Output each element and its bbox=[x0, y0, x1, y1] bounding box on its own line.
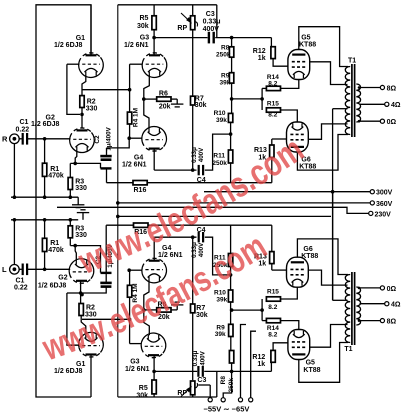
terminal 230V bbox=[369, 211, 373, 215]
svg-text:G2: G2 bbox=[58, 275, 67, 282]
svg-text:470k: 470k bbox=[48, 247, 64, 254]
wire R13' bottom to G6' grid bbox=[271, 264, 273, 271]
wire C4' to grid node bbox=[205, 237, 231, 275]
ground rail (bottom channel) bbox=[11, 219, 78, 221]
wire R11 bottom lead bbox=[230, 163, 232, 183]
wire R2 bottom to node bbox=[81, 108, 83, 115]
wire R6' right lead bbox=[171, 309, 177, 311]
wire R16' feed line bbox=[106, 224, 272, 226]
wire C4 to grid node bbox=[205, 134, 231, 170]
svg-text:RP: RP bbox=[177, 25, 187, 32]
transformer T1' core bbox=[352, 272, 355, 345]
watermark line 2: www.elecfans.com bbox=[37, 225, 273, 368]
svg-text:0.33μ: 0.33μ bbox=[192, 350, 199, 366]
node secondary' 8ohm tap bbox=[358, 319, 361, 322]
capacitor C1' 0.22u bbox=[23, 264, 27, 276]
feedback loop wire left (bottom) bbox=[36, 220, 91, 397]
wire jack sleeve down bbox=[13, 144, 15, 198]
wire R5' bottom lead bbox=[153, 394, 155, 397]
wire G5 plate loop to transformer bbox=[299, 27, 348, 67]
terminal bias 2 bbox=[221, 398, 225, 402]
potentiometer RP' body bbox=[191, 381, 195, 395]
wire R5 top lead bbox=[153, 5, 155, 16]
resistor R8' 250k bbox=[229, 351, 233, 364]
node rail/R3 bbox=[69, 195, 73, 199]
transformer T1' primary winding bbox=[345, 275, 350, 343]
wire C3' to R12' bbox=[204, 370, 271, 372]
svg-text:R12: R12 bbox=[252, 354, 265, 361]
svg-text:230V: 230V bbox=[375, 211, 392, 218]
potentiometer RP wiper hook bbox=[195, 22, 198, 27]
wire R8' bottom lead bbox=[231, 363, 233, 371]
svg-text:4Ω: 4Ω bbox=[391, 102, 401, 109]
svg-text:R: R bbox=[2, 135, 8, 144]
transformer T1 core bbox=[352, 64, 355, 137]
node R14/R15 return bbox=[260, 97, 264, 101]
wire G4 grid lead bbox=[129, 137, 142, 139]
node secondary' 0ohm tap bbox=[358, 287, 361, 290]
wire G3 plate to C3 bbox=[154, 37, 207, 39]
wire 300V vertical feed x=332.6 bbox=[332, 109, 334, 301]
wire secondary' tap 0ohm bbox=[360, 287, 381, 289]
svg-text:330: 330 bbox=[86, 106, 98, 113]
node C3/R8 bbox=[230, 36, 234, 40]
svg-text:T1: T1 bbox=[348, 58, 356, 65]
wire R7' bottom to RP' bbox=[192, 313, 194, 380]
wire G4 cathode lead up bbox=[144, 99, 149, 128]
wire G4' plate lead up bbox=[153, 237, 155, 261]
terminal bias 4 bbox=[249, 398, 253, 402]
wire G1 grid lead bbox=[67, 63, 80, 65]
watermark line 1: www.elecfans.com bbox=[72, 129, 310, 282]
capacitor C4' 0.33u/400V bbox=[199, 232, 203, 242]
wire R8 top lead bbox=[231, 38, 233, 47]
wire secondary tap 0ohm bbox=[360, 120, 381, 122]
resistor R6 20k bbox=[157, 97, 171, 101]
svg-text:1/2 6N1: 1/2 6N1 bbox=[158, 252, 183, 259]
wire bias terminal 2 jog bbox=[223, 371, 231, 397]
triode G3' 1/2 6N1 (inverted) bbox=[141, 333, 166, 358]
resistor R3' 330 bbox=[68, 226, 72, 238]
svg-text:R16: R16 bbox=[134, 187, 147, 194]
svg-text:R8: R8 bbox=[220, 376, 227, 385]
resistor R7' 30k bbox=[191, 304, 195, 313]
node R5'/G3' plate/C3' bbox=[152, 370, 156, 374]
wire G3 plate lead bbox=[153, 38, 155, 56]
svg-text:470k: 470k bbox=[48, 173, 64, 180]
svg-text:L: L bbox=[2, 265, 7, 274]
wire B+ center tap (top T1) bbox=[333, 108, 348, 110]
wire R12 to G5 grid bbox=[273, 59, 288, 67]
svg-text:1/2 6DJ8: 1/2 6DJ8 bbox=[54, 368, 83, 375]
wire G4 plate lead down bbox=[153, 149, 155, 171]
node 300V junction bbox=[331, 190, 335, 194]
svg-text:G1: G1 bbox=[76, 35, 85, 42]
wire node to G2 plate bbox=[81, 114, 83, 127]
resistor R9' 39k bbox=[229, 324, 233, 336]
wire R3 top lead bbox=[69, 163, 71, 177]
svg-text:330: 330 bbox=[75, 232, 87, 239]
wire G4 plate to C4 bbox=[154, 169, 196, 171]
wire secondary tap 8ohm bbox=[360, 87, 381, 89]
B+ rail bottom (y=397) bbox=[118, 396, 217, 398]
wire R3' bottom lead bbox=[69, 238, 71, 246]
wire G3' grid lead bbox=[130, 343, 141, 345]
wire R12' bottom lead bbox=[270, 362, 272, 371]
transformer T1' secondary winding bbox=[356, 287, 360, 325]
wire R3' top lead bbox=[69, 220, 71, 226]
svg-text:R5: R5 bbox=[140, 15, 149, 22]
resistor R11' 250k bbox=[228, 254, 232, 267]
node secondary 8ohm tap bbox=[358, 86, 361, 89]
feedback loop wire left side (top) bbox=[36, 5, 91, 220]
resistor R16' bbox=[134, 223, 149, 227]
wire R1 top lead bbox=[44, 139, 46, 163]
svg-text:8Ω: 8Ω bbox=[387, 85, 397, 92]
node R14'/R15' return bbox=[260, 308, 264, 312]
svg-text:0.22: 0.22 bbox=[14, 284, 28, 291]
svg-text:R7: R7 bbox=[196, 305, 205, 312]
resistor R14 8.2 bbox=[266, 86, 280, 90]
wire R15 to G6 cathode bbox=[281, 110, 298, 122]
wire C1 to R1 node bbox=[28, 138, 70, 140]
resistor R12 1k bbox=[271, 47, 275, 59]
potentiometer RP body bbox=[191, 16, 195, 30]
ground rail (top channel) bbox=[11, 196, 78, 198]
terminal bias 1 bbox=[208, 398, 212, 402]
wire secondary tap 4ohm bbox=[360, 103, 385, 105]
transformer T1 secondary winding bbox=[356, 84, 360, 122]
wire G3' grid to R4' bottom bbox=[129, 297, 131, 343]
capacitor C2' 1u/400V (electrolytic) bbox=[100, 273, 111, 287]
svg-text:0Ω: 0Ω bbox=[387, 119, 397, 126]
wire cathode return to R9' node bbox=[232, 309, 263, 311]
svg-text:4Ω: 4Ω bbox=[391, 302, 401, 309]
svg-text:C3: C3 bbox=[197, 377, 206, 384]
wire G3' plate line to C3' bbox=[154, 370, 197, 372]
svg-text:G6: G6 bbox=[303, 246, 312, 253]
wire R3 bottom lead bbox=[69, 190, 71, 198]
svg-text:R4 1M: R4 1M bbox=[133, 108, 140, 127]
svg-text:1k: 1k bbox=[258, 55, 266, 62]
svg-text:KT88: KT88 bbox=[303, 367, 320, 374]
wire G3' cathode lead bbox=[144, 310, 150, 335]
wire R1' top lead bbox=[44, 220, 46, 239]
svg-text:8.2: 8.2 bbox=[268, 304, 277, 311]
resistor R15' 8.2 bbox=[266, 297, 280, 301]
svg-text:30k: 30k bbox=[196, 312, 208, 319]
wire secondary' tap 8ohm bbox=[360, 320, 381, 322]
wire R10'-R9' bbox=[230, 302, 232, 324]
svg-text:R15: R15 bbox=[267, 288, 279, 295]
triode G4 1/2 6N1 (inverted) bbox=[142, 126, 167, 151]
svg-text:250k: 250k bbox=[216, 51, 231, 58]
node G3 cathode/R6 bbox=[142, 97, 146, 101]
ground symbol (top channel rail) bbox=[72, 197, 84, 207]
wire G6 plate loop to transformer bbox=[297, 135, 348, 171]
resistor R15 8.2 bbox=[266, 108, 280, 112]
wire G2 cathode node to C2 bbox=[70, 163, 100, 168]
wire RP to R7 bbox=[192, 30, 194, 97]
resistor R2' 330 bbox=[79, 304, 83, 316]
potentiometer RP' wiper hook bbox=[195, 383, 198, 388]
input jack L (left channel) bbox=[10, 265, 20, 275]
svg-text:360V: 360V bbox=[376, 201, 393, 208]
resistor R1' 470k bbox=[42, 238, 46, 251]
node C1'/R1'/G2' grid bbox=[43, 268, 47, 272]
B+ vertical feed wire x=117.8 bbox=[117, 5, 119, 397]
node rail/jack bbox=[13, 195, 17, 199]
wire R6 right lead bbox=[171, 98, 177, 100]
node G1' cathode output bbox=[128, 318, 132, 322]
wire R11'-R10' bbox=[230, 267, 232, 291]
wire G4' cathode lead down bbox=[144, 281, 149, 310]
terminal 4 ohm bbox=[385, 102, 389, 106]
wire 300V vertical to bottom center tap bbox=[332, 192, 334, 301]
wire R8-R9 bbox=[231, 57, 233, 72]
resistor R13' 1k bbox=[270, 252, 274, 264]
node rail'/jack bbox=[13, 218, 17, 222]
svg-text:0.22: 0.22 bbox=[16, 127, 30, 134]
svg-text:330: 330 bbox=[75, 185, 87, 192]
input jack R (right channel) bbox=[10, 134, 20, 144]
svg-text:400V: 400V bbox=[198, 147, 205, 162]
svg-text:39k: 39k bbox=[220, 79, 231, 86]
wire R13 top to G6 grid bbox=[271, 139, 273, 145]
wire C2' top lead to R16' line bbox=[105, 225, 107, 273]
resistor R10' 39k bbox=[228, 290, 232, 302]
node R7'/C4' wire bbox=[191, 235, 195, 239]
svg-text:30k: 30k bbox=[136, 392, 148, 399]
transformer T1 primary winding bbox=[345, 67, 350, 135]
svg-text:G3: G3 bbox=[140, 35, 149, 42]
svg-text:0Ω: 0Ω bbox=[387, 286, 397, 293]
wire G6 screen tap bbox=[308, 124, 347, 139]
beam tetrode G6' KT88 bbox=[287, 257, 309, 287]
terminal 8 ohm bbox=[380, 85, 384, 89]
svg-text:8.2: 8.2 bbox=[268, 111, 277, 118]
wire cathode return to R9 node bbox=[232, 98, 263, 100]
svg-text:R12: R12 bbox=[253, 48, 266, 55]
triode G1 1/2 6DJ8 bbox=[79, 53, 104, 78]
wire G5' screen tap bbox=[310, 325, 348, 348]
svg-text:G3: G3 bbox=[130, 359, 139, 366]
svg-text:C3: C3 bbox=[206, 11, 215, 18]
wire jack to C1 bbox=[19, 138, 22, 140]
wire G4' plate to C4' bbox=[154, 236, 196, 238]
svg-text:400V: 400V bbox=[199, 350, 206, 365]
capacitor C3 0.33u/400V bbox=[209, 32, 214, 44]
svg-text:G1: G1 bbox=[76, 361, 85, 368]
svg-text:250k: 250k bbox=[212, 160, 227, 167]
wire G3' plate lead bbox=[153, 355, 155, 371]
svg-text:R11: R11 bbox=[213, 153, 225, 160]
wire C3 to R8 column and R12 bbox=[215, 37, 271, 39]
svg-text:KT88: KT88 bbox=[299, 42, 316, 49]
potentiometer RP arrow bbox=[181, 13, 191, 22]
node R2/G2 plate/G1 grid bbox=[80, 113, 84, 117]
resistor R5 30k bbox=[152, 16, 156, 30]
wire R9-R10 bbox=[231, 83, 233, 113]
resistor R3 330 bbox=[68, 178, 72, 190]
svg-text:30k: 30k bbox=[137, 23, 149, 30]
wire R14' left lead bbox=[262, 320, 266, 322]
wire RP' bottom lead bbox=[192, 395, 194, 397]
svg-text:R5: R5 bbox=[139, 385, 148, 392]
svg-text:1μ/400V: 1μ/400V bbox=[106, 126, 113, 150]
wire G5 screen tap bbox=[310, 62, 348, 85]
resistor R7 30k bbox=[191, 96, 195, 105]
wire R6' left lead bbox=[144, 309, 157, 311]
svg-text:8.2: 8.2 bbox=[268, 331, 277, 338]
wire 300V line bbox=[204, 191, 370, 193]
wire G2' cathode lead bbox=[75, 246, 76, 261]
terminal 360V bbox=[370, 201, 374, 205]
svg-text:39k: 39k bbox=[215, 331, 226, 338]
svg-text:C2: C2 bbox=[94, 135, 101, 144]
wire G6' plate loop to transformer bbox=[297, 239, 348, 275]
triode G2' 1/2 6DJ8 (inverted) bbox=[69, 259, 94, 284]
svg-text:R6: R6 bbox=[159, 91, 168, 98]
wire G6 grid lead bbox=[272, 138, 287, 140]
resistor R10 39k bbox=[228, 113, 232, 122]
terminal 4 ohm (bottom) bbox=[385, 302, 389, 306]
ground symbol (bottom channel rail) bbox=[77, 210, 89, 220]
svg-text:39k: 39k bbox=[216, 117, 227, 124]
wire jack L sleeve up bbox=[13, 220, 15, 265]
wire R6 left lead bbox=[144, 98, 157, 100]
node secondary 0ohm tap bbox=[358, 120, 361, 123]
triode G4' 1/2 6N1 bbox=[142, 258, 167, 283]
wire R16 feed line bbox=[107, 182, 272, 184]
terminal 0 ohm (bottom) bbox=[380, 286, 384, 290]
wire G3 grid lead bbox=[130, 63, 142, 65]
svg-text:1/2 6DJ8: 1/2 6DJ8 bbox=[31, 121, 60, 128]
svg-text:T1: T1 bbox=[344, 346, 352, 353]
resistor R4' 1M bbox=[127, 285, 131, 297]
wire bias terminal 3 vertical bbox=[241, 325, 247, 398]
wire R1 bottom lead bbox=[44, 176, 46, 197]
wire G4' grid lead bbox=[129, 269, 142, 271]
svg-text:1/2 6DJ8: 1/2 6DJ8 bbox=[38, 283, 67, 290]
resistor R13 1k bbox=[270, 145, 274, 157]
svg-text:39k: 39k bbox=[216, 296, 227, 303]
node G2 cathode / R3 bbox=[73, 162, 77, 166]
wire G2' cathode node to C2' bbox=[70, 246, 100, 273]
triode G3 1/2 6N1 bbox=[142, 53, 167, 78]
wire bottom rail right end up to C3' node bbox=[216, 371, 218, 397]
node R10'/R11'/C4' out bbox=[229, 273, 233, 277]
svg-text:1/2 6DJ8: 1/2 6DJ8 bbox=[54, 42, 83, 49]
resistor R11 250k bbox=[228, 150, 232, 163]
wire secondary' tap 4ohm bbox=[360, 303, 385, 305]
terminal 8 ohm (bottom) bbox=[380, 319, 384, 323]
wire 360V line (bottom channel) bbox=[118, 215, 331, 217]
wire G1' grid lead bbox=[67, 344, 80, 346]
resistor R5' 30k bbox=[152, 380, 156, 394]
wire R9'-R8' bbox=[230, 337, 232, 351]
wire G6' grid lead bbox=[272, 269, 287, 271]
node 360V / B+ vertical bbox=[116, 201, 120, 205]
wire C1' to R1' node bbox=[28, 268, 70, 270]
node R4'/G4' grid bbox=[127, 268, 131, 272]
triode G1' 1/2 6DJ8 (inverted) bbox=[79, 332, 104, 357]
wire bias terminal 1 vertical bbox=[209, 385, 211, 398]
node R7/C4 wire bbox=[191, 168, 195, 172]
node 360V bottom / B+ vertical bbox=[116, 215, 120, 219]
wire G1 grid feedback loop bbox=[67, 64, 80, 114]
resistor R16 bbox=[133, 181, 147, 185]
wire R14/R15 vertical bbox=[261, 88, 263, 110]
wire R13' top lead bbox=[271, 225, 273, 251]
wire C2 top lead bbox=[106, 148, 108, 155]
wire G2' plate lead bbox=[80, 281, 82, 303]
wire R14'/R15' vertical bbox=[261, 299, 263, 321]
wire grid loop horiz bbox=[67, 292, 81, 294]
node rail/R1 bbox=[43, 195, 47, 199]
wire G1 plate lead bbox=[90, 5, 92, 56]
triode G2 1/2 6DJ8 bbox=[70, 128, 95, 153]
wire G5 cathode to R14 bbox=[281, 80, 299, 89]
B+ rail top (y=5) bbox=[118, 4, 217, 6]
node rail'/R3' bbox=[69, 218, 73, 222]
wire C2 top to R4 node bbox=[107, 138, 130, 148]
svg-text:30k: 30k bbox=[195, 102, 207, 109]
wire C2' bottom lead bbox=[81, 287, 107, 293]
wire R14 left lead bbox=[262, 87, 266, 89]
resistor R2 330 bbox=[80, 96, 84, 108]
resistor R4 1M bbox=[127, 112, 131, 124]
wire R4' top lead bbox=[129, 270, 131, 285]
node C1/R1/G2-grid junction bbox=[43, 137, 47, 141]
svg-text:1/2 6N1: 1/2 6N1 bbox=[125, 366, 150, 373]
wire R4 bottom lead bbox=[129, 124, 131, 138]
wire R12' to G5' grid bbox=[273, 343, 288, 351]
svg-text:−55V ∼ −65V: −55V ∼ −65V bbox=[204, 405, 250, 414]
svg-text:8Ω: 8Ω bbox=[387, 318, 397, 325]
wire G3 cathode lead bbox=[144, 75, 150, 99]
resistor R9 39k bbox=[229, 73, 233, 83]
wire RP top lead bbox=[192, 5, 194, 16]
resistor R14' 8.2 bbox=[266, 318, 280, 322]
svg-text:1/2 6N1: 1/2 6N1 bbox=[124, 42, 149, 49]
wire G1 cathode to G3 grid node bbox=[82, 89, 130, 91]
potentiometer RP' arrow bbox=[181, 387, 191, 396]
node G1 cathode output on R4 line bbox=[128, 88, 132, 92]
resistor R8 250k bbox=[229, 47, 233, 57]
wire R13 bottom lead bbox=[271, 157, 273, 182]
wire G5' cathode to R14' bbox=[281, 321, 299, 330]
svg-text:KT88: KT88 bbox=[301, 253, 318, 260]
wire G1' cathode out to G3' grid node bbox=[82, 318, 130, 320]
svg-text:R15: R15 bbox=[267, 100, 279, 107]
node R5/G3 plate/C3 bbox=[152, 36, 156, 40]
node R8'/C3' line bbox=[230, 370, 234, 374]
wire G1' plate lead bbox=[90, 354, 92, 397]
svg-text:20k: 20k bbox=[159, 103, 171, 110]
wire G1 cathode lead bbox=[82, 75, 86, 95]
svg-text:R2: R2 bbox=[87, 99, 96, 106]
svg-text:8.2: 8.2 bbox=[268, 80, 277, 87]
wire R2' bottom to G1' cathode bbox=[81, 316, 86, 335]
node G2' plate / C2' bottom bbox=[79, 291, 83, 295]
wire B+ center tap (bottom T1') bbox=[333, 299, 348, 301]
resistor R6' 20k bbox=[157, 308, 171, 312]
svg-text:1/2 6N1: 1/2 6N1 bbox=[122, 161, 147, 168]
node rail'/R1' bbox=[43, 218, 47, 222]
node R10/R11/C4 out bbox=[229, 132, 233, 136]
wire R5' top lead bbox=[153, 371, 155, 380]
